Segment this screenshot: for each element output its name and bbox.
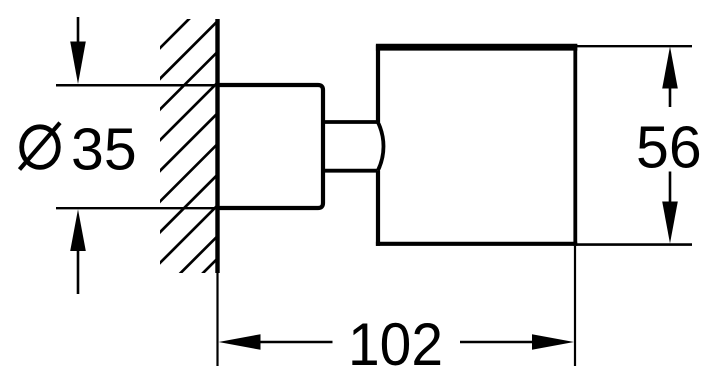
dim 56 top extension line bbox=[577, 45, 692, 47]
mount flange bbox=[218, 85, 324, 208]
cup right edge bbox=[573, 44, 577, 246]
dim 102 right arrowhead bbox=[532, 334, 574, 350]
cup bottom edge bbox=[376, 242, 577, 246]
dim 102 left shaft bbox=[260, 341, 333, 344]
svg-text:56: 56 bbox=[636, 114, 702, 180]
dim Ø35 top arrowhead bbox=[70, 42, 86, 85]
dim Ø35 bottom extension line bbox=[56, 207, 232, 209]
wall bbox=[215, 19, 219, 273]
dim 56 top arrowhead bbox=[662, 47, 678, 89]
neck bottom line bbox=[323, 169, 378, 173]
dim Ø35 top arrow shaft bbox=[77, 17, 80, 45]
dim 102 left arrowhead bbox=[219, 334, 261, 350]
dim 102 right shaft bbox=[460, 341, 533, 344]
cup left edge lower bbox=[376, 171, 380, 246]
neck top line bbox=[323, 120, 378, 124]
neck bulge arc bbox=[378, 122, 384, 171]
dim 56 upper shaft bbox=[669, 87, 672, 107]
cup left edge upper bbox=[376, 45, 380, 122]
dim Ø35 top extension line bbox=[56, 84, 218, 87]
cup top edge (thick) bbox=[376, 44, 577, 51]
dim 56 bottom arrowhead bbox=[662, 202, 678, 244]
svg-text:102: 102 bbox=[348, 310, 443, 378]
svg-text:35: 35 bbox=[71, 116, 137, 182]
dim 102 right extension line bbox=[574, 246, 576, 366]
dim 102 wall extension line bbox=[216, 273, 218, 366]
dim 56 lower shaft bbox=[669, 172, 672, 203]
dim Ø35 label diameter symbol bbox=[22, 127, 59, 168]
dim 56 bottom extension line bbox=[577, 243, 692, 246]
wall hatching bbox=[153, 10, 228, 281]
dim Ø35 bottom arrow shaft bbox=[77, 251, 80, 295]
dim Ø35 bottom arrowhead bbox=[70, 209, 86, 251]
